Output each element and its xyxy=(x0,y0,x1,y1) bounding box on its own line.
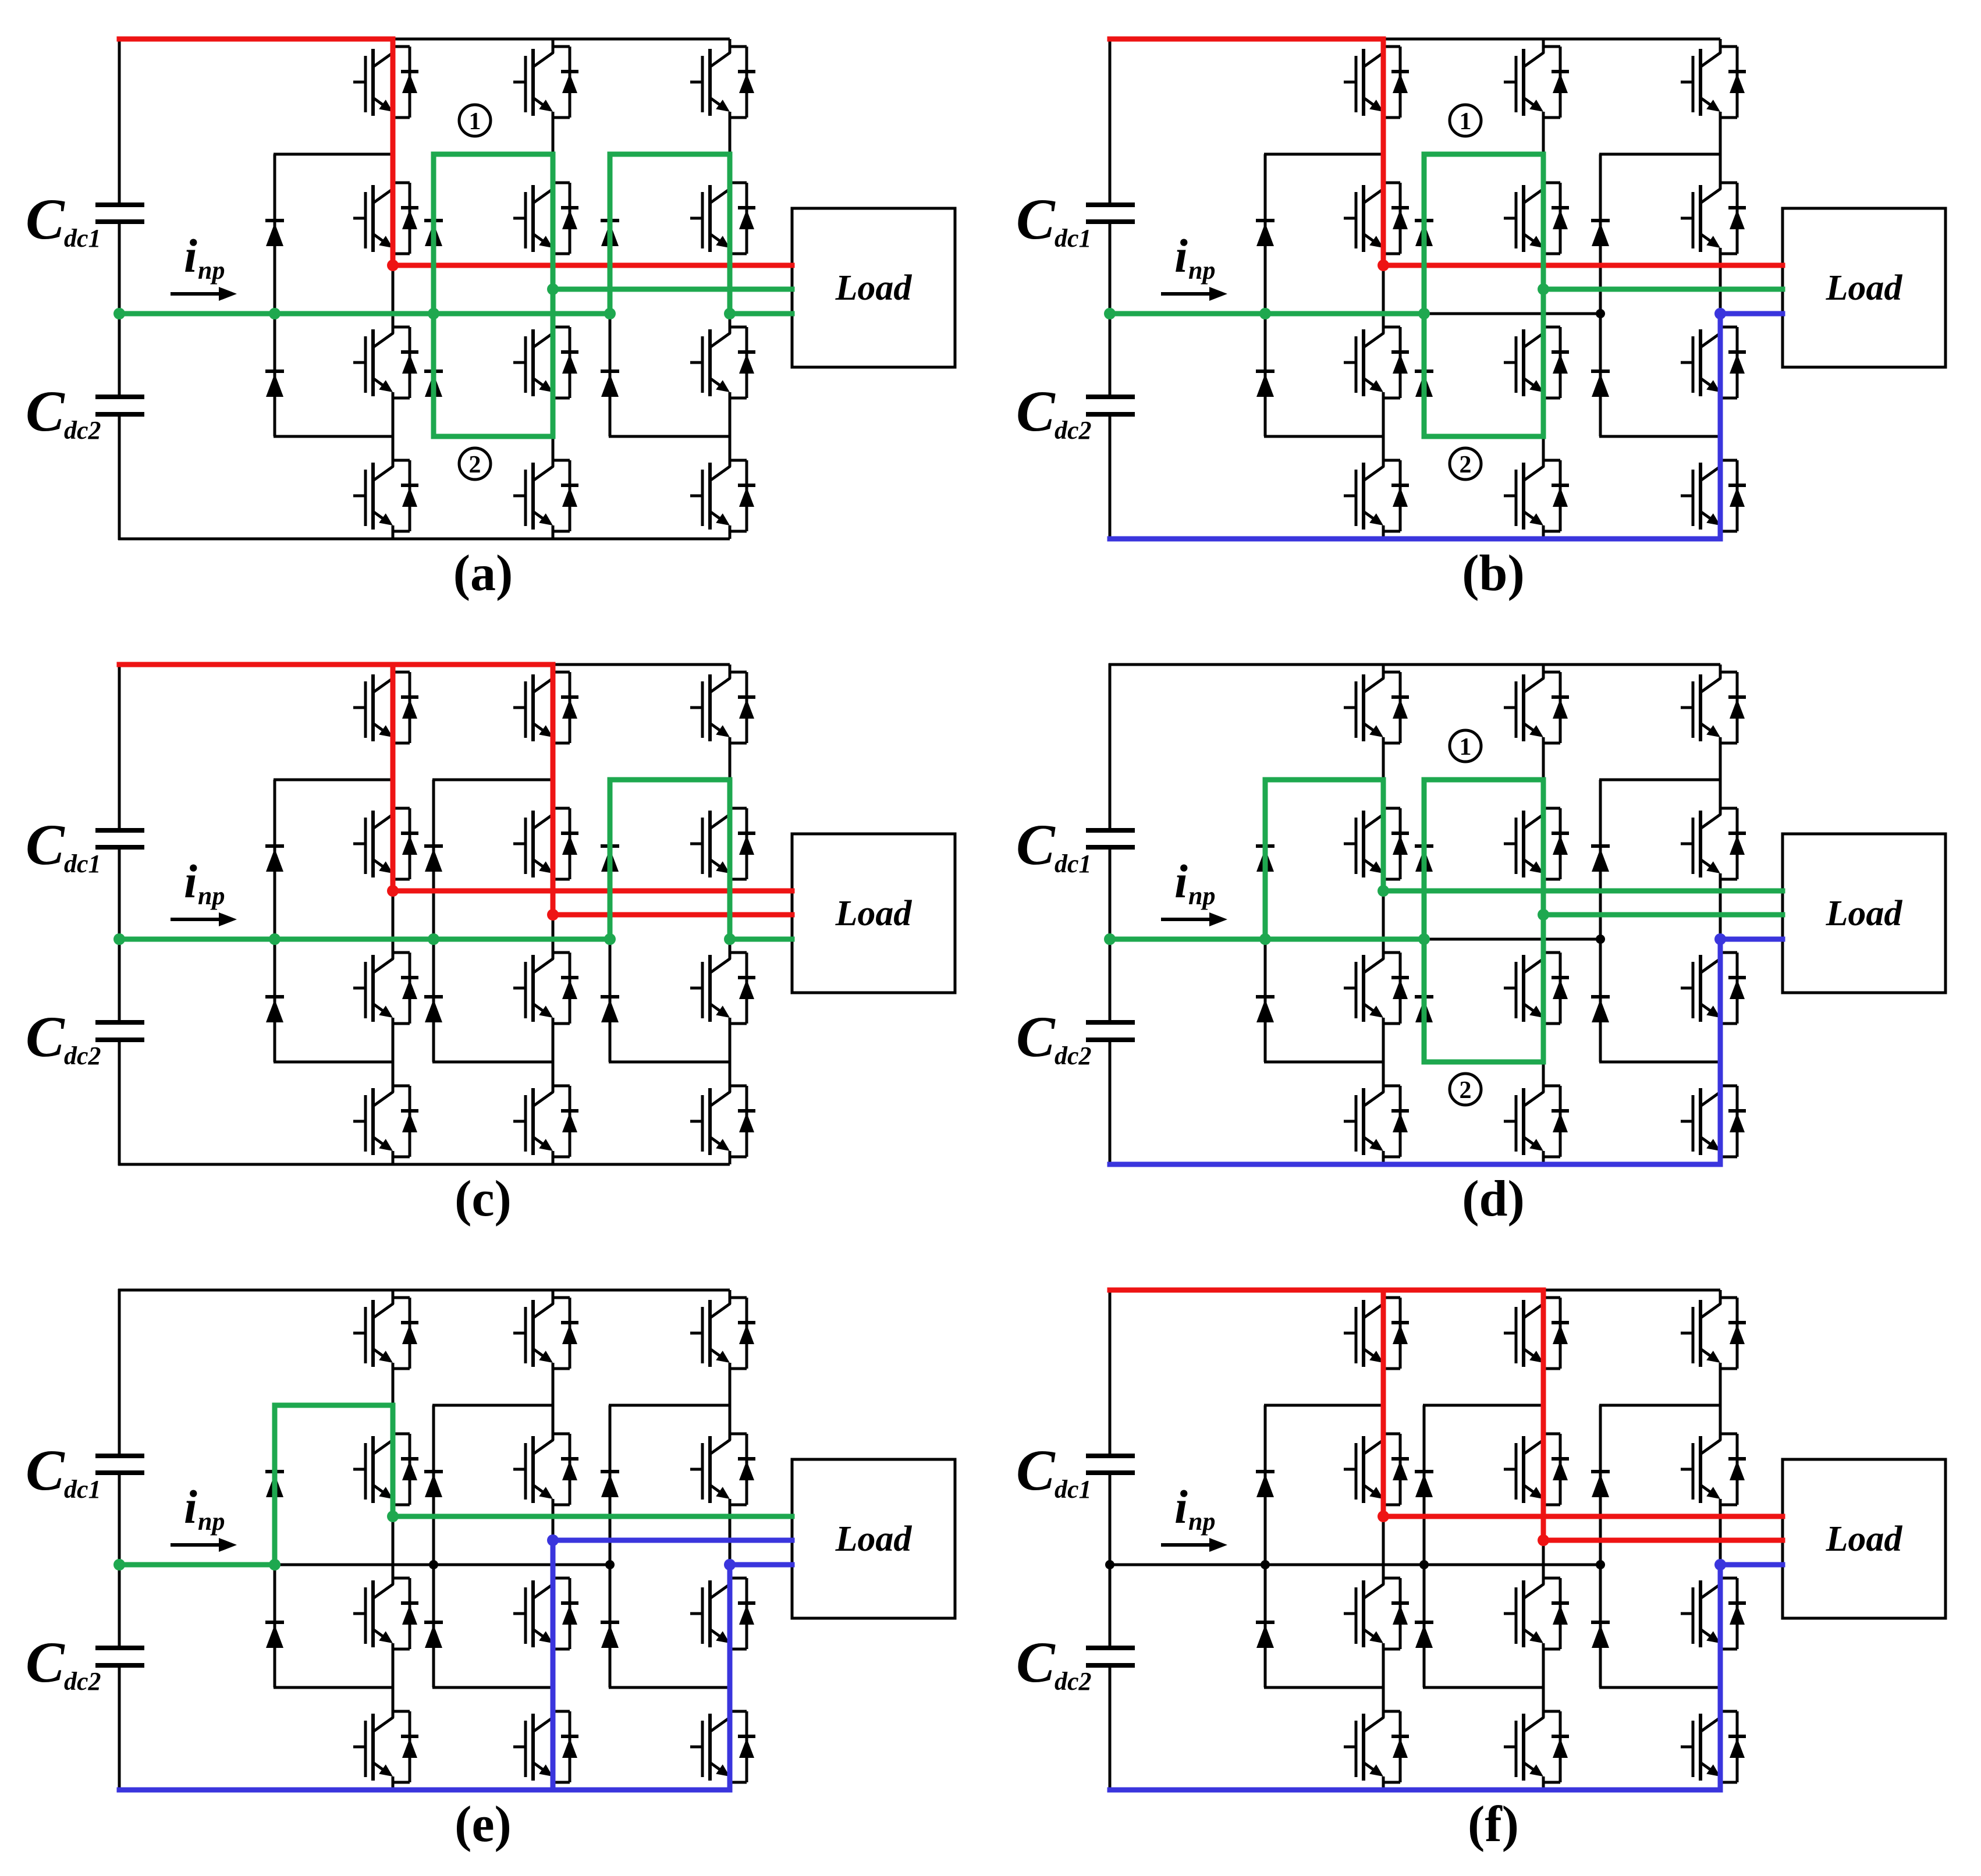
node: colored junction xyxy=(604,933,616,945)
current path green: phase2 output xyxy=(1543,912,1783,918)
svg-text:(e): (e) xyxy=(455,1796,512,1853)
node: colored junction xyxy=(1538,283,1549,295)
svg-text:(c): (c) xyxy=(455,1171,512,1227)
node: colored junction xyxy=(1259,308,1271,319)
node: colored junction xyxy=(1259,933,1271,945)
node: colored junction xyxy=(724,308,736,319)
current path green: clamp column 2 loop sides xyxy=(431,154,436,436)
current path green: clamp column 3 upper half xyxy=(610,154,730,314)
current path blue: N-rail to leg3 phase output xyxy=(1110,314,1783,539)
panel (f) : three-level NPC inverter xyxy=(1016,1289,1946,1853)
panel (a) : three-level NPC inverter xyxy=(26,38,955,602)
loop marker circled 1 xyxy=(1450,105,1481,136)
node: colored junction xyxy=(1418,308,1430,319)
wire blue node: leg3 phase tee xyxy=(1714,933,1726,945)
current path green: clamp2 bottom link xyxy=(1424,434,1543,439)
current path green: phase1 output xyxy=(1383,889,1783,894)
node: colored junction xyxy=(269,1559,281,1571)
current path green: phase2 output xyxy=(553,287,792,292)
loop marker circled 2 xyxy=(459,448,491,479)
panel (d) : three-level NPC inverter xyxy=(1016,663,1946,1227)
node: colored junction xyxy=(269,933,281,945)
svg-text:2: 2 xyxy=(1460,452,1472,478)
svg-text:(f): (f) xyxy=(1468,1796,1519,1853)
wire blue node: leg3 phase tee xyxy=(1714,308,1726,319)
node: colored junction xyxy=(387,1511,399,1522)
loop marker circled 2 xyxy=(1450,1074,1481,1105)
current path blue: N-rail along bottom xyxy=(119,1788,730,1793)
wire red nodes: phase tees xyxy=(387,885,399,897)
node: colored junction xyxy=(724,1559,736,1571)
panel (c) : three-level NPC inverter xyxy=(26,663,955,1227)
node: colored junction xyxy=(113,1559,125,1571)
current path red: P-rail to leg1 phase output xyxy=(1110,39,1783,265)
current path green: clamp2 bottom link xyxy=(434,434,553,439)
node: colored junction xyxy=(1418,933,1430,945)
current path green: phase2 output xyxy=(1543,287,1783,292)
svg-text:2: 2 xyxy=(1460,1077,1472,1104)
svg-text:(b): (b) xyxy=(1462,545,1525,602)
node: colored junction xyxy=(547,283,559,295)
base circuit of panel (c) xyxy=(26,663,955,1166)
svg-text:(a): (a) xyxy=(453,545,513,602)
current path green: clamp2 top link xyxy=(1424,152,1543,157)
current path green: phase3 output xyxy=(730,311,792,317)
node: colored junction xyxy=(113,308,125,319)
current path blue: phase2 output xyxy=(553,1538,792,1543)
node: colored junction xyxy=(428,933,439,945)
base circuit of panel (d) xyxy=(1016,663,1946,1166)
current path green: clamp2 top link xyxy=(1424,777,1543,783)
wire red node: leg1 phase tee xyxy=(387,260,399,271)
loop marker circled 1 xyxy=(1450,730,1481,762)
panel (b) : three-level NPC inverter xyxy=(1016,38,1946,602)
current path red: P-rail to leg1 and leg2 phase outputs xyxy=(119,662,553,667)
current path green: clamp2 bottom link xyxy=(1424,1060,1543,1065)
current path green: phase3 output xyxy=(730,937,792,942)
current path green: clamp column 2 xyxy=(1422,780,1427,1062)
node: colored junction xyxy=(1378,885,1389,897)
current path blue: phase3 output xyxy=(730,1562,792,1568)
current path green: neutral rail xyxy=(119,311,610,317)
base circuit of panel (e) xyxy=(26,1289,955,1791)
node: colored junction xyxy=(1538,909,1549,921)
panel (e) : three-level NPC inverter xyxy=(26,1289,955,1853)
loop marker circled 2 xyxy=(1450,448,1481,479)
current path green: phase1 output xyxy=(393,1514,792,1519)
node: colored junction xyxy=(113,933,125,945)
node: colored junction xyxy=(428,308,439,319)
node: colored junction xyxy=(1104,933,1116,945)
node: colored junction xyxy=(1104,308,1116,319)
svg-text:1: 1 xyxy=(469,108,481,135)
current path green: clamp3 up and over leg3 xyxy=(610,780,730,939)
node: colored junction xyxy=(724,933,736,945)
wire blue node: leg3 phase tee xyxy=(1714,1559,1726,1571)
node: colored junction xyxy=(547,1534,559,1546)
current path red: P-rail to leg1 and leg2 phase outputs xyxy=(1110,1288,1543,1293)
current path green: neutral rail left part xyxy=(1110,937,1424,942)
svg-text:1: 1 xyxy=(1460,734,1472,761)
current path blue: leg3 lower half xyxy=(727,1565,733,1790)
current path blue: leg2 lower half xyxy=(551,1540,556,1790)
current path blue: N-rail to leg3 phase output xyxy=(1110,1565,1783,1790)
current path green: clamp2 top link xyxy=(434,152,553,157)
current path green: leg2 through S22,S23 xyxy=(1541,780,1546,1062)
base circuit of panel (f) xyxy=(1016,1289,1946,1791)
svg-text:(d): (d) xyxy=(1462,1171,1525,1227)
current path green: leg2 through S22,S23 xyxy=(1541,154,1546,436)
current path green: neutral rail left part xyxy=(1110,311,1424,317)
current path green: clamp column 2 xyxy=(1422,154,1427,436)
current path green: neutral rail xyxy=(119,937,610,942)
node: colored junction xyxy=(269,308,281,319)
current path green: neutral to clamp1 up over leg1 to phase1 xyxy=(119,1405,393,1565)
loop marker circled 1 xyxy=(459,105,491,136)
current path blue: N-rail to leg3 phase output xyxy=(1110,939,1783,1164)
current path green: leg2 through S22,S23 xyxy=(551,154,556,436)
wire red node: leg1 phase tee xyxy=(1378,260,1389,271)
svg-text:1: 1 xyxy=(1460,108,1472,135)
base circuit of panel (b) xyxy=(1016,38,1946,540)
svg-text:2: 2 xyxy=(469,452,481,478)
base circuit of panel (a) xyxy=(26,38,955,540)
current path green: clamp1 up over leg1 to phase1 xyxy=(1265,780,1383,939)
node: colored junction xyxy=(604,308,616,319)
current path red: P-rail to leg1 phase output xyxy=(119,39,792,265)
wire red nodes: phase tees xyxy=(1378,1511,1389,1522)
